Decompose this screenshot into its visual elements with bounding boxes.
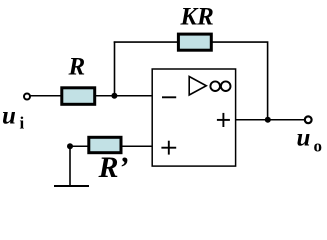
node A: junction dot at inverting input (111, 93, 117, 99)
wire: feedback branch up from node A (114, 41, 116, 95)
output terminal (305, 116, 312, 123)
svg-text:u: u (2, 102, 16, 129)
resistor R (62, 88, 95, 105)
op-amp U1 body (152, 69, 235, 166)
op-amp infinity symbol (210, 81, 220, 91)
op-amp gain triangle (189, 77, 206, 96)
op-amp minus input sign (162, 96, 176, 98)
op-amp output plus sign (217, 119, 230, 121)
wire: non-inverting input rail (ground node to op-amp +) (70, 145, 152, 147)
node: junction dot at ground/R' (67, 143, 73, 149)
svg-text:o: o (314, 137, 323, 156)
wire: ground branch down (69, 146, 71, 186)
input terminal (24, 94, 30, 100)
resistor R' (89, 137, 121, 152)
node: junction dot at output feedback tap (265, 117, 271, 123)
svg-text:R: R (68, 53, 86, 80)
wire: input rail from input terminal to op-amp inverting input (30, 95, 152, 97)
svg-text:i: i (20, 114, 25, 133)
svg-text:u: u (297, 125, 311, 152)
resistor KR (178, 34, 211, 50)
wire: feedback top horizontal to KR and down to output node (114, 42, 268, 120)
op-amp plus input sign (161, 147, 176, 149)
svg-text:R’: R’ (98, 151, 129, 184)
svg-text:KR: KR (180, 4, 214, 31)
ground (54, 185, 89, 187)
wire: op-amp output to output terminal (236, 119, 304, 121)
